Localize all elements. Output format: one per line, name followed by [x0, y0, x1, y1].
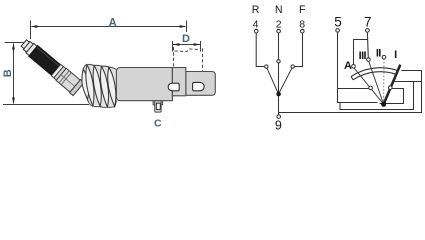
svg-text:5: 5	[334, 14, 342, 29]
bellows backdrop	[83, 64, 117, 107]
svg-text:A: A	[108, 17, 116, 29]
probe black cylinder	[29, 45, 61, 75]
wire from terminal 4	[256, 33, 264, 67]
svg-text:C: C	[154, 118, 162, 130]
contact II circle	[382, 55, 386, 59]
rotor radial to contact A	[354, 68, 384, 105]
hidden screw dashed outline	[174, 47, 203, 71]
terminal circles R N F	[254, 29, 258, 33]
rotor radial to contact III	[369, 61, 384, 104]
probe tip ribs	[20, 38, 37, 55]
svg-text:7: 7	[364, 14, 372, 29]
wire contact 4 to junction	[266, 67, 278, 94]
svg-text:4: 4	[253, 19, 259, 31]
terminal circle 9	[277, 115, 281, 119]
rotor radial to contact II (dotted)	[383, 59, 385, 105]
wire junction to terminal 9	[278, 94, 280, 114]
dimension D line	[173, 41, 201, 52]
wire from terminal 7 to contact A	[354, 32, 369, 64]
left stator plate	[338, 89, 378, 103]
crimp rings	[51, 64, 63, 77]
dimension A arrowheads	[31, 25, 186, 28]
right stator contact circle	[389, 86, 393, 90]
svg-text:III: III	[359, 50, 367, 62]
inner frame	[340, 82, 414, 110]
terminal circle 7	[366, 29, 370, 33]
wire position III to bus	[393, 81, 421, 83]
dimension B arrowheads	[12, 43, 15, 104]
body main section	[116, 68, 172, 101]
svg-text:I: I	[394, 49, 397, 61]
rotor pivot dot	[381, 102, 386, 107]
slot on right cap	[193, 82, 205, 90]
svg-text:B: B	[2, 69, 14, 77]
dimension A line	[31, 21, 187, 40]
terminal circle 5	[336, 29, 340, 33]
contact III circle	[367, 58, 371, 62]
dimension B line	[3, 43, 89, 105]
bellows fold joins	[83, 65, 116, 108]
right stator plate	[380, 89, 404, 104]
svg-text:9: 9	[275, 119, 282, 133]
wire from terminal 2	[278, 33, 280, 94]
collar	[56, 68, 80, 92]
wire from terminal 5	[337, 32, 339, 102]
contact circle on wire 2	[277, 60, 280, 63]
rotor wiper at position I	[384, 65, 401, 105]
svg-text:R: R	[252, 4, 260, 16]
svg-text:II: II	[376, 48, 381, 60]
sector arc outer	[351, 68, 398, 77]
wire from terminal 8	[295, 33, 303, 67]
dimension D arrowheads	[173, 43, 200, 46]
contact A circle	[352, 65, 356, 69]
slot on main body	[168, 83, 179, 91]
left stator contact circle	[369, 86, 373, 90]
collar end flange	[70, 79, 85, 95]
mounting nub	[153, 101, 163, 112]
svg-text:D: D	[182, 33, 190, 45]
wire contact 8 to junction	[279, 67, 293, 94]
contact circle on wire 4	[265, 65, 268, 68]
body middle section	[172, 68, 185, 96]
svg-text:A: A	[344, 60, 352, 72]
body right cap	[186, 72, 216, 96]
junction dot	[276, 92, 281, 97]
probe assembly (rotated)	[18, 36, 84, 95]
svg-text:N: N	[275, 4, 283, 16]
contact circle on wire 8	[291, 65, 294, 68]
bellows corrugation leaves	[82, 65, 116, 107]
sector arc inner	[353, 72, 396, 80]
wire bottom bus to switch	[279, 71, 422, 113]
svg-text:F: F	[299, 4, 306, 16]
